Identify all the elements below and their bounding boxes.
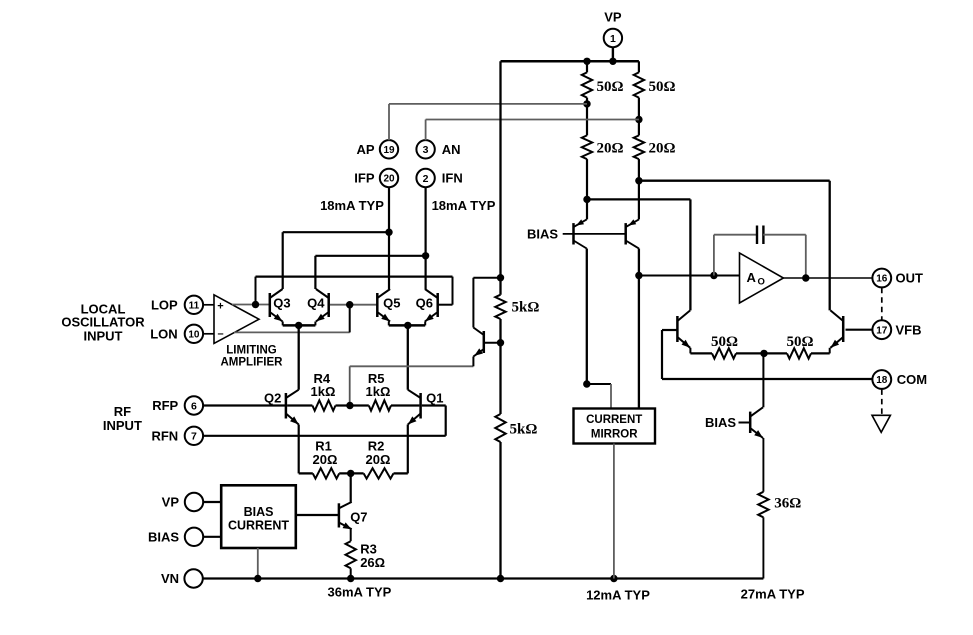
wire VP supply rail <box>501 60 639 63</box>
label 18mA TYP right <box>432 198 496 213</box>
svg-text:MIRROR: MIRROR <box>591 428 638 440</box>
wire 50ohm output line <box>690 352 829 354</box>
label R2 value <box>366 452 391 467</box>
label RF <box>114 404 131 419</box>
node VN R3 tap <box>347 575 354 582</box>
wire Q5 Q6 common emitter <box>389 322 425 326</box>
label Q3 <box>273 296 290 311</box>
pin 10 LON <box>185 325 203 343</box>
wire RFN to Q1 base <box>203 406 446 436</box>
svg-text:AP: AP <box>356 142 374 157</box>
node LO plus branch <box>252 301 259 308</box>
wire cap right lead <box>763 235 806 278</box>
label 50ohm output right <box>786 334 813 350</box>
node junction left supply <box>583 58 590 65</box>
label Q6 <box>416 296 433 311</box>
transistor bias right <box>750 407 763 438</box>
svg-text:11: 11 <box>189 300 200 311</box>
svg-text:50Ω: 50Ω <box>786 334 813 350</box>
transistor Q6 <box>425 289 438 322</box>
svg-text:50Ω: 50Ω <box>649 79 676 95</box>
svg-text:A: A <box>747 270 757 285</box>
label BIAS right <box>705 415 736 430</box>
wire amp output <box>783 277 872 279</box>
svg-text:20Ω: 20Ω <box>597 141 624 157</box>
label R4 <box>313 371 330 386</box>
pin 7 RFN <box>185 427 203 445</box>
node Q3 Q4 emitter junction <box>295 322 302 329</box>
wire cap left lead <box>714 235 757 276</box>
svg-text:17: 17 <box>876 325 888 336</box>
svg-text:6: 6 <box>191 400 197 412</box>
resistor 20ohm right <box>634 135 644 159</box>
svg-text:50Ω: 50Ω <box>597 79 624 95</box>
label RFN <box>151 428 178 443</box>
resistor 50ohm right <box>634 72 644 97</box>
svg-text:7: 7 <box>191 431 197 443</box>
wire AN to supply <box>426 120 639 141</box>
label R5 value <box>366 384 391 399</box>
label R1 <box>315 438 332 453</box>
resistor 50ohm output right <box>787 348 811 358</box>
svg-text:18: 18 <box>876 375 888 386</box>
label LOCAL <box>81 302 126 317</box>
svg-text:BIAS: BIAS <box>148 529 179 544</box>
svg-text:BIAS: BIAS <box>527 227 558 242</box>
wire output left base <box>662 330 677 379</box>
wire VN rail <box>203 577 764 579</box>
svg-text:36Ω: 36Ω <box>774 496 801 512</box>
svg-text:36mA TYP: 36mA TYP <box>327 585 391 600</box>
svg-text:Q3: Q3 <box>273 296 290 311</box>
svg-text:OUT: OUT <box>896 271 924 286</box>
wire Q4 collector link <box>315 256 425 289</box>
svg-text:1kΩ: 1kΩ <box>311 384 336 399</box>
node Q5 Q6 emitter junction <box>404 322 411 329</box>
node R4 R5 junction <box>346 402 353 409</box>
wire bias right emitter <box>762 438 764 492</box>
svg-text:3: 3 <box>423 144 429 156</box>
wire mirror to VN rail <box>613 444 615 579</box>
label Q7 <box>350 510 367 525</box>
label R3 value <box>360 555 385 570</box>
resistor 36ohm <box>758 492 768 518</box>
svg-text:O: O <box>758 276 765 287</box>
svg-text:BIAS: BIAS <box>705 415 736 430</box>
label 36ohm <box>774 496 801 512</box>
svg-text:1kΩ: 1kΩ <box>366 384 391 399</box>
svg-text:20Ω: 20Ω <box>649 141 676 157</box>
label 20ohm right <box>649 141 676 157</box>
wire output right emitter <box>829 348 831 354</box>
resistor R1 <box>313 468 339 478</box>
pin VP left <box>185 493 203 511</box>
wire RFP to Q2 base <box>203 404 286 406</box>
svg-text:19: 19 <box>383 145 395 156</box>
label 50ohm left <box>597 79 624 95</box>
svg-text:20: 20 <box>383 174 395 185</box>
label OSCILLATOR <box>61 315 145 330</box>
wire left supply vertical upper <box>499 61 501 294</box>
node 5k top junction <box>497 274 504 281</box>
svg-text:26Ω: 26Ω <box>360 555 385 570</box>
svg-text:Q7: Q7 <box>350 510 367 525</box>
wire VP to box <box>203 501 221 503</box>
pin 3 AN <box>416 140 434 158</box>
label BIAS center <box>527 227 558 242</box>
svg-text:5kΩ: 5kΩ <box>512 300 540 316</box>
node mirror left corner <box>583 380 590 387</box>
wire BIAS right base <box>739 422 751 424</box>
wire right mid segment <box>638 98 640 136</box>
wire left branch lower <box>586 159 588 219</box>
label RFP <box>152 398 178 413</box>
label Q1 <box>426 390 443 405</box>
svg-text:VP: VP <box>604 10 622 25</box>
resistor R2 <box>364 468 394 478</box>
label Q5 <box>383 296 400 311</box>
label VP <box>604 10 622 25</box>
svg-text:LOP: LOP <box>151 297 178 312</box>
wire pnp left emitter <box>586 218 588 220</box>
pin BIAS left <box>185 528 203 546</box>
wire IFN to mixer <box>425 187 427 289</box>
node R1 R2 junction <box>347 470 354 477</box>
wire right tap to output stage <box>639 181 830 311</box>
svg-text:R2: R2 <box>368 438 385 453</box>
label 50ohm right <box>649 79 676 95</box>
svg-text:20Ω: 20Ω <box>366 452 391 467</box>
label AN <box>442 142 461 157</box>
wire box to VN rail <box>257 548 259 579</box>
transistor Q3 <box>270 289 283 322</box>
transistor output left <box>677 310 690 347</box>
svg-text:50Ω: 50Ω <box>711 334 738 350</box>
wire Q7 collector <box>350 473 352 502</box>
label AMPLIFIER <box>221 357 284 369</box>
label 27mA TYP <box>741 587 805 602</box>
resistor 50ohm left <box>582 72 592 97</box>
wire left tap to output stage <box>587 199 691 310</box>
node left branch tap <box>583 196 590 203</box>
svg-text:INPUT: INPUT <box>84 328 123 343</box>
box BIAS CURRENT <box>221 485 296 548</box>
pin 2 IFN <box>416 169 434 187</box>
wire bias node to follower <box>350 366 474 404</box>
label Q2 <box>264 390 281 405</box>
wire AP to supply <box>389 104 587 140</box>
node AN junction <box>635 116 642 123</box>
label INPUT <box>84 328 123 343</box>
label R2 <box>368 438 385 453</box>
svg-text:Q1: Q1 <box>426 390 443 405</box>
wire 36ohm to VN rail <box>762 517 764 578</box>
node AP junction <box>583 100 590 107</box>
node 50ohm center junction <box>760 350 767 357</box>
pin 1 VP <box>604 29 622 62</box>
pin 17 VFB <box>872 320 891 339</box>
wire Q7 emitter <box>350 529 352 541</box>
svg-text:+: + <box>217 300 223 312</box>
svg-text:VFB: VFB <box>896 322 922 337</box>
node VN 5k tap <box>497 575 504 582</box>
label INPUT rf <box>103 418 142 433</box>
wire BIAS to box <box>203 536 221 538</box>
wire mixer right to Q1 collector <box>407 325 409 389</box>
wire Q3 Q4 common emitter <box>283 322 316 326</box>
label 5kohm lower <box>510 421 538 437</box>
svg-text:VP: VP <box>162 495 180 510</box>
wire Q2 emitter drop <box>298 425 300 474</box>
svg-text:INPUT: INPUT <box>103 418 142 433</box>
label 12mA TYP <box>586 588 650 603</box>
svg-text:RF: RF <box>114 404 131 419</box>
svg-text:CURRENT: CURRENT <box>228 519 289 533</box>
transistor Q5 <box>377 289 390 322</box>
resistor 20ohm left <box>582 135 592 159</box>
node junction VP <box>609 58 616 65</box>
label LIMITING <box>226 344 277 356</box>
wire amp input <box>639 275 740 277</box>
wire left supply branch upper <box>586 61 588 72</box>
resistor 5kohm upper <box>495 295 505 319</box>
wire right supply branch upper <box>638 61 640 72</box>
wire mirror left entry <box>587 384 611 409</box>
wire IFP to mixer <box>388 187 390 289</box>
transistor Q2 <box>286 390 299 425</box>
svg-text:Q2: Q2 <box>264 390 281 405</box>
svg-text:Q4: Q4 <box>307 296 325 311</box>
wire Q3-Q6 base crosslink <box>256 277 453 305</box>
label R1 value <box>313 452 338 467</box>
label IFN <box>442 171 463 186</box>
wire Q1 emitter drop <box>407 425 409 474</box>
svg-text:AMPLIFIER: AMPLIFIER <box>221 357 284 369</box>
svg-text:IFN: IFN <box>442 171 463 186</box>
pin 11 LOP <box>185 296 203 314</box>
resistor 50ohm output left <box>712 348 736 358</box>
svg-text:12mA TYP: 12mA TYP <box>586 588 650 603</box>
label Q4 <box>307 296 325 311</box>
svg-text:–: – <box>217 328 223 340</box>
label R5 <box>368 371 385 386</box>
node cap tap <box>710 272 717 279</box>
node IFP Q3 collector junction <box>385 229 392 236</box>
wire left supply vertical middle <box>499 319 501 414</box>
wire Q3 collector link <box>283 232 389 289</box>
svg-text:5kΩ: 5kΩ <box>510 421 538 437</box>
svg-text:16: 16 <box>876 274 888 285</box>
svg-text:Q5: Q5 <box>383 296 400 311</box>
resistor R3 <box>346 541 356 568</box>
svg-text:18mA TYP: 18mA TYP <box>432 198 496 213</box>
svg-text:BIAS: BIAS <box>244 505 274 519</box>
wire left mid segment <box>586 98 588 136</box>
svg-text:LIMITING: LIMITING <box>226 344 277 356</box>
node VN box tap <box>254 575 261 582</box>
label R4 value <box>311 384 336 399</box>
node 5k bottom junction <box>497 339 504 346</box>
node Q4 Q5 base junction <box>346 301 353 308</box>
label 36mA TYP <box>327 585 391 600</box>
svg-text:R1: R1 <box>315 438 332 453</box>
label IFP <box>354 171 375 186</box>
op-amp AO <box>740 253 784 303</box>
label LOP <box>151 297 178 312</box>
label VP left <box>162 495 180 510</box>
pin 16 OUT <box>872 269 891 288</box>
label VFB <box>896 322 922 337</box>
pin 20 IFP <box>380 169 398 187</box>
svg-text:LON: LON <box>150 326 177 341</box>
label 5kohm upper <box>512 300 540 316</box>
wire pnp right collector drop <box>638 249 640 409</box>
wire output right base VFB <box>846 329 873 331</box>
op-amp limiting amplifier <box>214 295 259 344</box>
pin 19 AP <box>380 140 398 158</box>
svg-text:20Ω: 20Ω <box>313 452 338 467</box>
transistor Q4 <box>316 289 329 322</box>
svg-text:RFP: RFP <box>152 398 178 413</box>
transistor output right <box>830 310 843 347</box>
svg-text:COM: COM <box>897 372 927 387</box>
svg-text:CURRENT: CURRENT <box>586 414 642 426</box>
wire follower base <box>484 342 501 344</box>
wire limiting amp plus output <box>232 304 270 306</box>
wire Q6 base loop <box>438 304 453 306</box>
wire COM line <box>662 378 872 380</box>
label R3 <box>360 542 377 557</box>
wire R4 R5 base line <box>287 404 419 406</box>
label AP <box>356 142 374 157</box>
wire mixer left to Q2 collector <box>298 325 300 389</box>
wire R3 to VN rail <box>350 568 352 578</box>
node right branch tap <box>635 177 642 184</box>
wire bias right collector <box>762 353 764 407</box>
label COM <box>897 372 927 387</box>
pin VN <box>184 569 202 587</box>
svg-text:IFP: IFP <box>354 171 375 186</box>
transistor bias pnp right <box>626 219 639 248</box>
svg-text:1: 1 <box>610 33 616 45</box>
svg-text:AN: AN <box>442 142 461 157</box>
wire follower collector loop <box>473 278 500 328</box>
label LON <box>150 326 177 341</box>
label 20ohm left <box>597 141 624 157</box>
box CURRENT MIRROR <box>574 409 656 444</box>
pin 18 COM <box>872 370 891 389</box>
wire LON input <box>203 333 214 335</box>
ground <box>872 415 890 432</box>
label VN <box>161 571 179 586</box>
transistor bias pnp left <box>574 219 587 248</box>
label BIAS left <box>148 529 179 544</box>
wire OUT to VFB dashed <box>881 288 883 321</box>
node IFN Q4 collector junction <box>422 252 429 259</box>
wire pnp left collector drop <box>586 249 588 385</box>
wire base node riser <box>349 305 351 333</box>
wire limiting amp minus output <box>234 331 350 333</box>
svg-text:10: 10 <box>188 329 200 340</box>
label 18mA TYP left <box>320 198 384 213</box>
transistor Q7 <box>339 502 352 529</box>
label 50ohm output left <box>711 334 738 350</box>
label OUT <box>896 271 924 286</box>
resistor R5 <box>369 400 391 410</box>
node amp input tap <box>635 272 642 279</box>
wire Q4 Q5 base link <box>330 304 377 306</box>
resistor 5kohm lower <box>495 414 505 442</box>
wire right branch lower <box>638 159 640 219</box>
svg-text:Q6: Q6 <box>416 296 433 311</box>
wire LOP input <box>203 304 214 306</box>
svg-text:2: 2 <box>423 173 429 185</box>
svg-text:27mA TYP: 27mA TYP <box>741 587 805 602</box>
wire R1 R2 emitter line <box>299 472 408 474</box>
wire BIAS base link <box>563 233 626 235</box>
svg-text:18mA TYP: 18mA TYP <box>320 198 384 213</box>
svg-text:VN: VN <box>161 571 179 586</box>
capacitor feedback <box>757 226 763 245</box>
wire COM to ground dashed <box>881 389 883 415</box>
wire Q7 base <box>296 514 339 516</box>
resistor R4 <box>312 400 335 410</box>
transistor bias follower <box>473 328 483 367</box>
pin 6 RFP <box>185 396 203 414</box>
svg-text:RFN: RFN <box>151 428 178 443</box>
node VN mirror tap <box>610 575 617 582</box>
node amp output tap <box>802 274 809 281</box>
wire left supply vertical lower <box>499 442 501 579</box>
transistor Q1 <box>408 390 421 425</box>
wire output left emitter <box>689 348 691 354</box>
